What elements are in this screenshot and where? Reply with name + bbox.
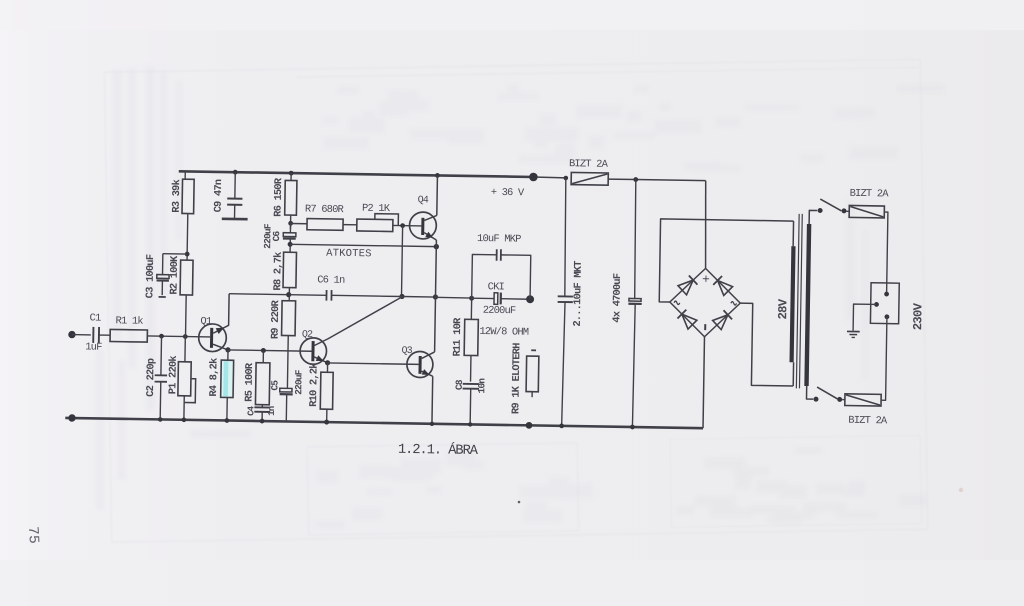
wire: F3 to switch S2 — [842, 399, 845, 401]
wire: junction to R7 — [291, 222, 307, 224]
svg-text:220uF: 220uF — [293, 369, 304, 395]
wire: C1 to R1 — [99, 334, 110, 336]
resistor R1 1k — [110, 329, 147, 342]
node: +36V supply junction (big dot) — [529, 173, 538, 182]
svg-text:10n: 10n — [476, 378, 487, 394]
svg-text:28V: 28V — [776, 298, 790, 319]
svg-text:2...10uF MKT: 2...10uF MKT — [572, 261, 585, 327]
terminal: input upper — [68, 331, 76, 339]
node: output big dot — [526, 295, 534, 303]
capacitor C6 1n (node row) — [289, 294, 327, 297]
wire: P2 column down — [401, 226, 402, 297]
earth ground symbol — [847, 330, 860, 332]
wire: R8 to node A — [288, 288, 290, 301]
resistor R9 1K (eloterheles) — [526, 356, 539, 392]
AC squiggle left — [674, 301, 680, 304]
potentiometer P1 220k — [178, 362, 191, 396]
mains plug box 230V — [870, 283, 899, 324]
svg-text:10uF MKP: 10uF MKP — [477, 233, 521, 246]
diode D2 (right-top edge) — [717, 280, 732, 295]
plug pin middle (earth) — [874, 302, 879, 307]
switch S1 lever — [820, 199, 841, 211]
wire: Q4 emitter column down to Q3 collector — [435, 240, 437, 352]
capacitor CKI 2200uF (electrolytic) — [472, 297, 494, 299]
resistor R3 39k — [184, 171, 186, 179]
wire: input to C1 — [72, 334, 91, 336]
svg-text:75: 75 — [24, 526, 41, 544]
wire: R7 to P2 — [343, 224, 357, 226]
svg-text:BIZT 2A: BIZT 2A — [850, 188, 890, 201]
transistor Q4 — [409, 212, 436, 239]
svg-text:R2 100K: R2 100K — [168, 255, 181, 295]
node: junction P2 column / node row — [399, 294, 404, 299]
svg-text:C4: C4 — [246, 405, 256, 416]
label minus mark (bridge negative) — [704, 324, 706, 330]
svg-text:+: + — [702, 272, 710, 287]
load resistor R9 1K ELOTERH terminal dash — [531, 349, 536, 351]
wire: plug bottom to fuse F3 — [881, 317, 887, 401]
svg-text:2200uF: 2200uF — [483, 305, 516, 318]
node: junction C6- / R8 / atkotes jumper — [288, 242, 293, 247]
svg-text:R9 220R: R9 220R — [270, 299, 283, 339]
svg-text:Q2: Q2 — [302, 330, 313, 341]
svg-text:1uF: 1uF — [85, 341, 102, 353]
transformer secondary winding 28V (bar) — [792, 221, 794, 246]
wire: top rail thin segment to fuse — [533, 176, 565, 179]
svg-text:C2 220p: C2 220p — [145, 358, 158, 397]
resistor R5 100R — [261, 348, 266, 353]
svg-text:C6: C6 — [271, 230, 282, 241]
node: junction top-rail / 2..10uF column — [563, 176, 568, 181]
svg-text:Q1: Q1 — [200, 316, 212, 328]
svg-text:12W/8 OHM: 12W/8 OHM — [479, 326, 529, 339]
diode D4 (bottom-right edge) — [713, 315, 728, 330]
svg-text:ATKOTES: ATKOTES — [326, 248, 372, 261]
wire: plug earth stub — [853, 304, 876, 331]
wire: primary top to switch — [809, 210, 817, 224]
wire: bridge - down to ground rail — [703, 337, 704, 428]
fuse F2 BIZT 2A — [849, 205, 884, 217]
node: junction P2/Q4-base column — [400, 223, 405, 228]
svg-text:BIZT 2A: BIZT 2A — [848, 415, 888, 428]
capacitor C9 47n to ground — [233, 170, 238, 175]
node: junction Q1 emitter / R4 / R5 row — [225, 347, 230, 352]
switch S2 lever — [817, 387, 838, 399]
wire: Q3 emitter to bottom rail — [431, 376, 434, 424]
capacitor C4 1n — [261, 405, 263, 408]
svg-text:230V: 230V — [911, 302, 925, 330]
wire: atkotes jumper (C6-/R8 node to Q4 emitter column) — [290, 244, 436, 246]
svg-text:R5 100R: R5 100R — [243, 362, 256, 402]
plug pin upper — [884, 292, 889, 297]
transformer core — [796, 214, 799, 388]
svg-text:+ 36 V: + 36 V — [491, 187, 525, 200]
diode D3 (bottom-left edge) — [682, 314, 697, 329]
transformer primary winding (bar) — [804, 224, 811, 386]
svg-text:R3 39k: R3 39k — [171, 179, 184, 212]
Q1 emitter lead down — [213, 344, 228, 350]
capacitor 4x 4700uF (electrolytic) — [634, 180, 637, 299]
wire: R3 to R2 — [186, 214, 189, 261]
wire: F2 to plug — [883, 212, 888, 294]
node: junction node-row / Q4-Q3 column — [433, 294, 438, 299]
svg-text:Q4: Q4 — [418, 195, 429, 206]
node: junction R6/C6/R7 — [288, 221, 293, 226]
node A: junction R8/R9/collector row — [286, 292, 291, 297]
wire: Q1 collector row to node A — [229, 293, 289, 296]
capacitor C6 220uF (between R6 and R8, electrolytic) — [289, 223, 291, 232]
wire: emitter row to Q2 base — [228, 350, 312, 351]
wire: R1 to Q1 base — [147, 336, 210, 337]
terminal: input lower (ground) — [68, 414, 76, 422]
Q3 emitter lead with arrow — [421, 371, 432, 376]
wire: R2 column down to P1 — [184, 337, 186, 362]
wire: node row to Q4/Q3 column — [402, 295, 435, 298]
capacitor C5 220uF (electrolytic) — [280, 388, 292, 392]
svg-text:R6 150R: R6 150R — [273, 177, 286, 217]
transistor Q3 — [407, 351, 433, 377]
bridge rectifier diamond — [669, 268, 740, 338]
bypass loop 10uF MKP — [472, 254, 497, 298]
resistor R10 2,2k — [326, 363, 328, 372]
svg-text:P1 220k: P1 220k — [167, 356, 180, 395]
svg-text:4x 4700uF: 4x 4700uF — [611, 273, 624, 323]
Q1 collector lead up to node A — [213, 293, 229, 333]
resistor R11 10R — [470, 298, 472, 319]
node: junction top rail / 4x4700uF — [633, 177, 638, 182]
capacitor C1 1uF (series) — [92, 327, 94, 343]
fuse F1 BIZT 2A — [571, 172, 608, 185]
svg-text:Q3: Q3 — [401, 346, 412, 357]
transistor Q1 — [198, 324, 226, 352]
fuse F3 BIZT 2A — [845, 394, 881, 406]
resistor R2 100K — [180, 260, 193, 295]
svg-text:R4 8,2k: R4 8,2k — [208, 358, 221, 397]
svg-text:BIZT 2A: BIZT 2A — [569, 158, 609, 171]
svg-text:R11 10R: R11 10R — [452, 317, 465, 357]
resistor R7 680R — [307, 219, 343, 231]
svg-text:R7 680R: R7 680R — [305, 204, 344, 217]
svg-text:C8: C8 — [454, 379, 465, 390]
potentiometer P2 1K — [357, 219, 393, 231]
node: junction R3/R2/C3 — [185, 252, 190, 257]
AC squiggle right — [731, 302, 737, 305]
svg-text:P2 1K: P2 1K — [362, 203, 391, 215]
svg-text:1n: 1n — [267, 406, 277, 416]
node: junction input/P1 column — [183, 334, 188, 339]
wire: top rail corner down to bridge + — [704, 181, 707, 269]
wire: Q2 emitter row to Q3 base — [328, 363, 419, 364]
wire: P2 to Q4 base — [393, 224, 422, 226]
wire: bridge right AC to transformer secondary bottom — [739, 303, 795, 386]
node: junction output row / R11+10uF column — [469, 296, 474, 301]
Q2 emitter lead with arrow — [314, 357, 328, 363]
capacitor C3 100uF to ground stub — [163, 253, 187, 255]
diode D1 (left-top edge) — [678, 280, 693, 295]
capacitor C2 220p — [160, 336, 163, 375]
node: big dot on ground rail below R9-1K — [526, 422, 533, 429]
Q4 emitter lead with arrow — [424, 233, 436, 240]
resistor R4 8,2k (highlighted) — [227, 350, 229, 360]
capacitor 2...10uF MKT — [564, 178, 567, 296]
wire: top supply rail (+36V) — [179, 171, 534, 177]
switch S1 contact dots — [818, 208, 823, 213]
wire: bridge left AC loop to transformer secondary top — [659, 219, 793, 304]
wire: R11 to C8 — [470, 356, 472, 382]
bottom ground rail — [65, 418, 703, 428]
wire: switch S2 to primary bottom — [806, 386, 813, 399]
ground bar below C9 — [222, 217, 248, 220]
node: junction jumper / Q4 emitter column — [434, 244, 439, 249]
wire: top rail from fuse to bridge — [608, 179, 705, 181]
svg-text:C3 100uF: C3 100uF — [144, 254, 157, 298]
Q2 collector diagonal up to P2-column node — [314, 295, 402, 346]
svg-text:R1 1k: R1 1k — [115, 315, 143, 327]
svg-text:R9 1K ELOTERH: R9 1K ELOTERH — [510, 343, 523, 414]
node: junction top rail / R6 — [289, 171, 294, 176]
resistor R9 220R — [282, 301, 296, 336]
wire: output node row (Q4 column to CKI) — [435, 296, 471, 299]
plug pin lower — [884, 314, 889, 319]
Q4 collector to top rail — [435, 173, 440, 178]
wire: switch to fuse F2 — [847, 210, 850, 212]
resistor R6 150R — [290, 173, 292, 180]
wire: R6 to junction — [289, 215, 291, 229]
wire: R9 down across emitter row to C5 — [286, 336, 289, 389]
svg-text:C1: C1 — [89, 312, 101, 324]
Q3 collector diagonal — [422, 352, 435, 359]
svg-text:R8 2,7k: R8 2,7k — [272, 252, 285, 291]
transistor Q2 — [300, 338, 327, 365]
ground tick below C3 — [159, 296, 166, 298]
svg-text:C5: C5 — [269, 380, 280, 391]
node: junction Q2 emitter / R10 — [325, 360, 330, 365]
svg-text:C9 47n: C9 47n — [213, 179, 226, 212]
switch S2 contact dots — [837, 397, 842, 402]
node: junction input/C2 — [159, 334, 164, 339]
svg-text:C6 1n: C6 1n — [317, 274, 345, 286]
wire: R2 to input row — [185, 295, 188, 337]
resistor R8 2,7k — [283, 252, 296, 288]
svg-text:CKI: CKI — [488, 281, 505, 293]
svg-text:R10 2,2k: R10 2,2k — [308, 363, 321, 407]
capacitor C8 10n — [463, 383, 479, 385]
